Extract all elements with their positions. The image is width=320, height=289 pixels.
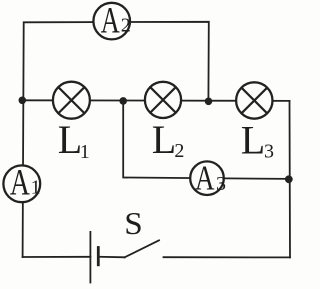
lamp L1 — [53, 82, 90, 119]
svg-text:3: 3 — [264, 141, 274, 163]
wire battery to switch pivot — [98, 256, 124, 259]
wire bottom right (switch right contact) — [164, 256, 291, 258]
wire A3 branch — [123, 101, 289, 179]
ammeter A3 — [190, 159, 226, 198]
ammeter A1 — [3, 162, 40, 203]
switch S blade — [125, 240, 159, 257]
battery long plate (positive) — [89, 231, 91, 283]
wire right rail — [289, 101, 292, 258]
svg-text:L: L — [58, 117, 82, 162]
lamp L2 — [145, 82, 181, 118]
junction node J2 (between L1 and L2, A3 branch tap) — [119, 97, 127, 105]
wire left rail + top wire + A2 drop — [23, 22, 209, 257]
ammeter A2 — [93, 1, 130, 42]
junction node J3 (between L2 and L3, A2 drop) — [205, 98, 213, 106]
svg-text:L: L — [152, 117, 176, 162]
svg-text:A: A — [10, 162, 30, 203]
svg-text:A: A — [195, 159, 215, 198]
svg-text:L: L — [241, 117, 265, 162]
svg-text:3: 3 — [216, 173, 226, 195]
svg-text:1: 1 — [80, 141, 90, 163]
battery short plate (negative) — [97, 246, 100, 266]
wire lamp row — [22, 99, 289, 102]
junction node J1 (left rail / lamp row) — [19, 97, 27, 105]
wire bottom left to battery — [23, 256, 91, 258]
svg-text:2: 2 — [174, 140, 184, 162]
svg-text:1: 1 — [31, 176, 41, 198]
lamp L3 — [236, 82, 272, 118]
svg-text:A: A — [101, 1, 120, 42]
junction node J4 (right rail / A3 branch) — [285, 175, 293, 183]
svg-text:2: 2 — [121, 14, 131, 36]
svg-text:S: S — [124, 206, 143, 241]
